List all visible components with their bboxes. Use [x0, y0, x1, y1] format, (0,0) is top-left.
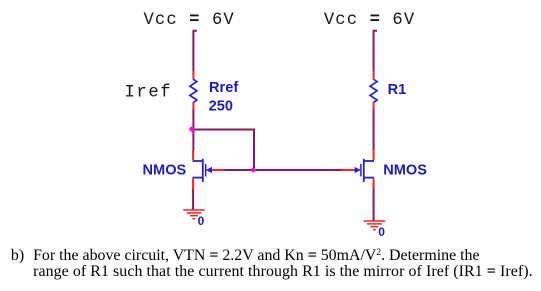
svg-text:250: 250: [209, 99, 233, 115]
wire: right source to ground: [373, 188, 375, 221]
resistor R1 zigzag: [370, 79, 377, 102]
pin stub: M2 source: [373, 178, 375, 189]
pin stub: M1 drain: [192, 150, 194, 160]
pin stub: M2 drain: [373, 150, 375, 160]
caption line 2: [33, 264, 533, 280]
pin stub: R1 top: [373, 71, 375, 80]
wire: left Vcc drop with hook: [193, 31, 196, 72]
svg-text:0: 0: [378, 225, 385, 239]
wire: gate bus (middle): [224, 169, 342, 171]
transistor M2 gate arrow: [355, 167, 361, 173]
svg-text:NMOS: NMOS: [143, 163, 187, 179]
wire: feedback loop drain-to-gate: [193, 130, 254, 170]
svg-text:Rref: Rref: [209, 80, 238, 96]
caption line 1: [11, 248, 24, 264]
svg-text:R1: R1: [388, 82, 407, 98]
pin stub: Rref top: [192, 71, 194, 80]
wire: right between resistor and drain: [373, 109, 375, 151]
node: drain-gate junction dot: [189, 127, 194, 132]
pin stub: M1 source: [192, 178, 194, 189]
svg-text:Vcc = 6V: Vcc = 6V: [324, 11, 415, 30]
svg-text:Iref: Iref: [125, 83, 173, 102]
svg-text:NMOS: NMOS: [383, 163, 427, 179]
transistor M1 (left NMOS, gate facing right): [193, 159, 206, 182]
wire: right Vcc drop with hook: [374, 31, 377, 72]
node: gate bus junction dot: [251, 168, 256, 173]
transistor M1 gate arrow: [206, 167, 212, 173]
transistor M2 (right NMOS, gate facing left): [361, 159, 374, 182]
svg-text:0: 0: [198, 214, 205, 228]
wire: left source to ground: [192, 188, 194, 210]
svg-text:Vcc = 6V: Vcc = 6V: [144, 11, 235, 30]
pin stub: R1 bottom: [373, 102, 375, 109]
ground right: [364, 221, 386, 230]
pin stub: M2 gate: [341, 169, 355, 171]
ground left: [183, 210, 205, 219]
pin stub: M1 gate: [211, 169, 224, 171]
wire: left between resistor and drain: [192, 109, 194, 151]
resistor Rref zigzag: [190, 79, 197, 102]
pin stub: Rref bottom: [192, 102, 194, 109]
